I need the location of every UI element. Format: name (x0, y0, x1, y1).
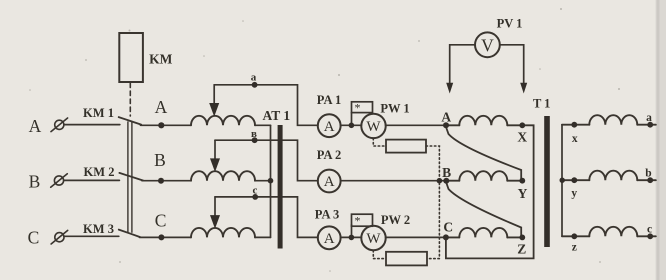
wattmeter PW1 voltage tap stem (351, 113, 353, 126)
wire C winding end to star point (255, 236, 271, 238)
svg-text:a: a (251, 72, 257, 84)
contact KM3 blade (119, 230, 140, 238)
contactor coil KM (119, 33, 143, 82)
junction PW1 voltage tap (349, 123, 355, 129)
PV1 left probe lead (450, 45, 475, 84)
wire PA3 to PW2 (341, 236, 362, 238)
svg-text:A: A (441, 109, 451, 124)
delta link wire C to X (446, 125, 534, 258)
svg-text:Y: Y (518, 186, 528, 201)
T1 secondary star point wire (561, 125, 563, 237)
wattmeter PW1 (361, 114, 385, 138)
terminal C (circle with slash) (51, 230, 68, 244)
wattmeter PW1 voltage coil box (352, 102, 373, 113)
svg-text:C: C (28, 228, 40, 248)
right scan edge band (656, 0, 666, 280)
wire phase C to AT1 (140, 236, 192, 238)
svg-text:V: V (481, 35, 494, 55)
svg-text:A: A (324, 119, 335, 135)
mechanical linkage bar (double line) (127, 122, 129, 232)
dotted wire R1 to net B (426, 146, 439, 259)
terminal B (circle with slash) (51, 174, 68, 188)
wattmeter PW2 voltage tap stem (351, 225, 353, 238)
node A (T1 primary) (443, 122, 449, 128)
svg-text:W: W (366, 231, 381, 247)
T1 primary winding A-X (446, 116, 522, 126)
wire phase C input (64, 235, 119, 237)
junction T1 secondary star y (560, 178, 565, 183)
svg-text:a: a (646, 112, 652, 124)
T1 core bar (544, 116, 550, 247)
PW2 voltage circuit (dotted) (373, 250, 386, 258)
AT1 winding phase A (191, 116, 255, 126)
node B (T1 primary) (443, 178, 449, 184)
terminal c (T1 secondary) (647, 233, 653, 239)
svg-text:PW 2: PW 2 (381, 213, 410, 227)
wire phase B input (64, 179, 120, 181)
PW1 voltage circuit (dotted) (373, 138, 386, 146)
AT1 tap arrow shaft phase B (214, 140, 216, 161)
voltmeter PV1 (475, 32, 500, 57)
junction net B dotted (437, 178, 443, 184)
AT1 core bar (278, 125, 283, 249)
node Y (T1 primary) (519, 178, 525, 184)
svg-text:в: в (251, 128, 257, 140)
T1 primary winding C-Z (446, 228, 522, 238)
svg-text:KM 2: KM 2 (84, 165, 115, 179)
svg-text:y: y (571, 188, 577, 200)
T1 secondary winding x-a (562, 115, 656, 125)
svg-text:c: c (647, 224, 652, 236)
resistor R1 (PW1 voltage circuit) (386, 140, 426, 153)
svg-text:A: A (155, 97, 168, 117)
mechanical link (dashed) from coil KM (129, 83, 131, 116)
AT1 tap arrow shaft phase C (214, 197, 216, 218)
svg-text:B: B (29, 172, 41, 192)
svg-text:A: A (29, 116, 42, 136)
ammeter PA3 (318, 226, 341, 249)
terminal A (circle with slash) (51, 118, 68, 132)
svg-text:c: c (253, 185, 258, 197)
contact KM2 blade (119, 173, 143, 181)
node x (T1 secondary) (571, 122, 577, 128)
AT1 tap arrow shaft phase A (213, 85, 215, 106)
wire phase A to AT1 (141, 124, 192, 126)
node C (after KM3) (158, 234, 164, 240)
svg-text:A: A (324, 174, 335, 190)
svg-text:X: X (517, 129, 527, 144)
svg-text:PA 1: PA 1 (317, 93, 341, 107)
svg-text:W: W (366, 119, 381, 135)
T1 secondary winding z-c (562, 227, 656, 237)
node в (AT1 tap B) (252, 137, 258, 143)
wattmeter PW2 (361, 226, 385, 250)
svg-text:C: C (155, 210, 167, 230)
svg-text:KM: KM (149, 52, 173, 67)
svg-text:PV 1: PV 1 (497, 17, 523, 31)
svg-text:AT 1: AT 1 (262, 108, 290, 123)
wire PW2 to node C (386, 236, 446, 238)
node A (after KM1) (158, 122, 164, 128)
svg-text:Z: Z (517, 241, 526, 256)
AT1 winding phase C (191, 228, 255, 238)
svg-text:PW 1: PW 1 (380, 101, 409, 115)
wire phase A input (64, 124, 120, 126)
PV1 right probe arrowhead (520, 83, 527, 94)
wire A winding end to star point (255, 124, 271, 126)
AT1 tap wire phase B (215, 140, 318, 181)
T1 primary winding B-Y (446, 171, 522, 180)
ammeter PA1 (318, 114, 341, 137)
svg-text:PA 2: PA 2 (317, 148, 341, 162)
wire PA2 to node B (341, 180, 447, 182)
svg-text:T 1: T 1 (533, 97, 551, 111)
node y (T1 secondary) (571, 177, 577, 183)
AT1 star point wire (270, 125, 272, 237)
AT1 tap arrowhead phase A (209, 103, 219, 117)
node B (after KM2) (158, 178, 164, 184)
svg-text:*: * (355, 213, 361, 227)
contact KM1 blade (119, 117, 142, 125)
junction PW2 voltage tap (349, 235, 355, 241)
svg-text:KM 1: KM 1 (83, 106, 114, 120)
ammeter PA2 (318, 170, 341, 193)
svg-text:PA 3: PA 3 (315, 208, 339, 222)
wattmeter PW2 voltage coil box (352, 214, 373, 226)
svg-text:*: * (355, 101, 361, 115)
PV1 left probe arrowhead (446, 83, 453, 94)
terminal b (T1 secondary) (647, 177, 653, 183)
svg-text:b: b (645, 167, 651, 179)
wire PA1 to PW1 (341, 124, 362, 126)
svg-text:B: B (442, 165, 451, 180)
svg-text:z: z (572, 241, 577, 253)
node X (T1 primary) (519, 122, 525, 128)
node z (T1 secondary) (571, 233, 577, 239)
node c (AT1 tap C) (252, 194, 258, 200)
wire PW1 to node A (386, 124, 446, 126)
svg-text:C: C (443, 220, 453, 235)
wire phase B to AT1 (142, 180, 191, 182)
svg-text:x: x (572, 133, 578, 145)
AT1 tap wire phase A (214, 85, 318, 126)
delta link wire B to Z (446, 183, 521, 238)
AT1 tap arrowhead phase B (210, 158, 220, 172)
svg-text:KM 3: KM 3 (83, 222, 114, 236)
wire B winding end to star point (255, 180, 271, 182)
svg-text:A: A (324, 231, 335, 247)
delta link wire A to Y (446, 128, 521, 181)
AT1 winding phase B (191, 171, 255, 180)
node C (T1 primary) (443, 234, 449, 240)
resistor R2 (PW2 voltage circuit) (386, 252, 427, 266)
node Z (T1 primary) (519, 235, 525, 241)
AT1 tap wire phase C (215, 197, 318, 238)
T1 secondary winding y-b (562, 171, 656, 181)
AT1 tap arrowhead phase C (210, 215, 220, 229)
svg-text:B: B (154, 150, 166, 170)
node a (AT1 tap A) (252, 82, 258, 88)
PV1 right probe lead (500, 45, 524, 84)
terminal a (T1 secondary) (647, 122, 653, 128)
junction AT1 star point B (268, 178, 274, 184)
